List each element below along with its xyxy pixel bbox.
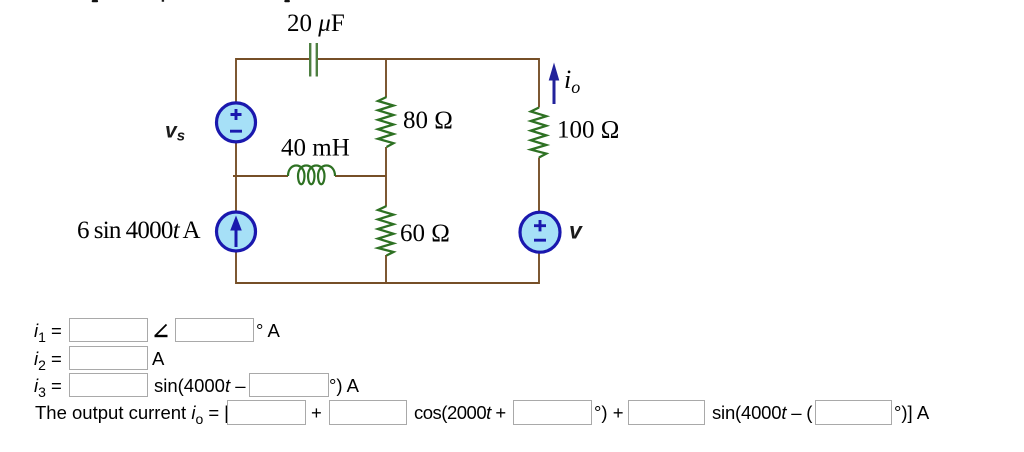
current arrow io — [549, 63, 560, 105]
input box io cos phase — [513, 400, 592, 425]
form row 1: i1 — [0, 318, 1024, 343]
wire: left branch vertical — [235, 58, 237, 284]
cropped text fragment 1 — [92, 0, 98, 2]
label io — [564, 65, 580, 97]
input box io sin phase — [815, 400, 892, 425]
resistor R2 100 ohm zigzag — [531, 108, 547, 158]
svg-text:80 Ω: 80 Ω — [403, 107, 453, 134]
form row 3: i3 — [0, 373, 1024, 398]
input box io sin magnitude — [628, 400, 705, 425]
voltage source v circle — [520, 212, 560, 252]
input box i1 angle — [175, 318, 254, 342]
label 20 uF — [287, 10, 345, 37]
capacitor C1 20 uF plates — [310, 43, 317, 77]
input box i2 — [69, 346, 148, 370]
input box i1 magnitude — [69, 318, 148, 342]
form row 4: output current — [0, 400, 1024, 425]
input box i3 phase — [249, 373, 329, 397]
cropped text fragment 2 — [162, 0, 165, 2]
label 80 ohm — [403, 107, 453, 134]
svg-text:100 Ω: 100 Ω — [557, 117, 619, 144]
form row 2: i2 — [0, 346, 1024, 371]
label 6 sin 4000t A — [77, 217, 201, 244]
cropped text fragment 3 — [284, 0, 290, 2]
resistor R3 60 ohm zigzag — [378, 206, 394, 256]
wire: right branch vertical — [538, 58, 540, 284]
svg-text:v: v — [569, 218, 583, 244]
svg-text:20 μF: 20 μF — [287, 10, 345, 37]
wire: top-left segment with capacitor gap — [236, 58, 309, 60]
label 60 ohm — [400, 220, 450, 247]
wire: top-right segment — [318, 58, 539, 60]
svg-text:io: io — [564, 65, 580, 97]
angle symbol — [153, 323, 169, 339]
wire: middle horizontal with inductor — [233, 175, 386, 177]
label Vs — [165, 120, 185, 145]
input box i3 magnitude — [69, 373, 148, 397]
label v — [569, 218, 583, 244]
label 100 ohm — [557, 117, 619, 144]
svg-text:6 sin 4000t A: 6 sin 4000t A — [77, 217, 201, 244]
voltage source Vs circle — [217, 103, 256, 142]
input box io cos magnitude — [329, 400, 407, 425]
current source I1 circle with arrow — [217, 212, 256, 251]
resistor R1 80 ohm zigzag — [378, 97, 394, 147]
svg-text:40 mH: 40 mH — [281, 135, 350, 162]
label 40 mH — [281, 135, 350, 162]
wire: middle branch vertical — [385, 58, 387, 284]
wire: bottom — [236, 282, 539, 284]
inductor L1 40 mH coil — [288, 166, 335, 185]
input box io dc term — [227, 400, 306, 425]
svg-text:vs: vs — [165, 120, 185, 145]
svg-text:60 Ω: 60 Ω — [400, 220, 450, 247]
